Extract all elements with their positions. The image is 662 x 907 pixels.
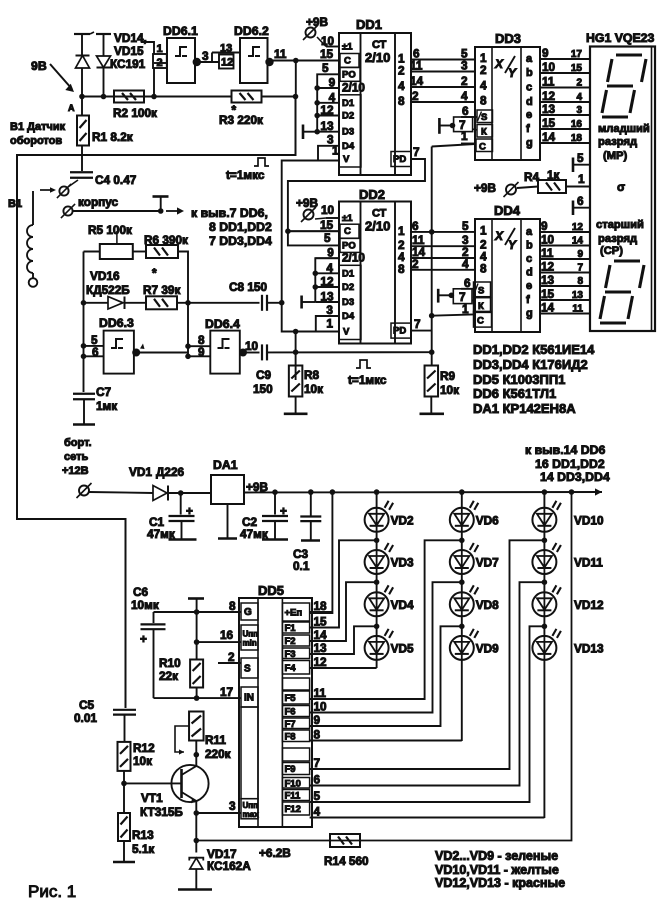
svg-text:3: 3 — [461, 59, 468, 73]
svg-text:Y: Y — [508, 238, 517, 252]
svg-text:σ: σ — [617, 180, 625, 194]
svg-text:15: 15 — [541, 287, 555, 301]
svg-text:R14 560: R14 560 — [324, 854, 369, 868]
svg-text:DD3,DD4 К176ИД2: DD3,DD4 К176ИД2 — [473, 357, 588, 372]
svg-text:5: 5 — [322, 61, 329, 75]
svg-text:f: f — [526, 123, 530, 135]
svg-text:Uпп: Uпп — [243, 801, 259, 810]
svg-text:8: 8 — [480, 94, 487, 108]
svg-text:8: 8 — [577, 276, 583, 287]
svg-text:2/10: 2/10 — [365, 50, 390, 65]
svg-text:F12: F12 — [285, 804, 301, 815]
svg-text:12: 12 — [221, 57, 233, 69]
svg-text:14: 14 — [410, 74, 424, 88]
svg-text:DD6.2: DD6.2 — [234, 24, 269, 38]
svg-text:3: 3 — [576, 105, 582, 116]
svg-text:d: d — [526, 96, 533, 108]
svg-text:10: 10 — [245, 339, 259, 353]
svg-text:S: S — [244, 664, 251, 675]
svg-text:4: 4 — [398, 79, 405, 93]
svg-text:8: 8 — [398, 262, 405, 276]
svg-text:220к: 220к — [205, 747, 231, 761]
svg-text:VD4: VD4 — [391, 598, 414, 612]
svg-text:22к: 22к — [159, 669, 178, 683]
svg-text:С9: С9 — [256, 368, 272, 382]
svg-text:5.1к: 5.1к — [132, 842, 154, 856]
svg-text:2: 2 — [157, 57, 163, 69]
svg-text:6: 6 — [92, 345, 99, 359]
svg-text:2/10: 2/10 — [365, 219, 390, 234]
svg-text:7: 7 — [414, 317, 421, 331]
svg-text:e: e — [526, 109, 532, 121]
svg-text:DD6.1: DD6.1 — [163, 24, 198, 38]
svg-text:16: 16 — [220, 628, 234, 642]
svg-text:47мк: 47мк — [240, 527, 268, 541]
svg-text:10к: 10к — [133, 754, 152, 768]
svg-text:0.1: 0.1 — [293, 559, 310, 573]
svg-text:R5 100к: R5 100к — [88, 223, 132, 237]
svg-text:F2: F2 — [285, 636, 296, 647]
svg-text:13: 13 — [314, 641, 328, 655]
svg-text:КС162А: КС162А — [207, 859, 251, 873]
svg-text:18: 18 — [571, 133, 583, 144]
svg-text:C: C — [344, 56, 351, 67]
svg-text:d: d — [526, 267, 533, 279]
svg-text:R8: R8 — [304, 368, 320, 382]
svg-text:VD8: VD8 — [476, 598, 499, 612]
svg-text:VD3: VD3 — [391, 556, 414, 570]
svg-text:корпус: корпус — [78, 195, 119, 209]
svg-text:5: 5 — [577, 151, 584, 165]
svg-text:e: e — [526, 280, 532, 292]
svg-text:11: 11 — [541, 246, 554, 260]
svg-text:12: 12 — [541, 260, 555, 274]
svg-text:4: 4 — [461, 89, 468, 103]
svg-text:C: C — [344, 226, 351, 237]
svg-text:DD5 К1003ПП1: DD5 К1003ПП1 — [473, 372, 565, 387]
svg-text:9: 9 — [327, 246, 334, 260]
svg-text:разряд: разряд — [598, 233, 637, 245]
svg-text:R4: R4 — [524, 170, 540, 184]
svg-text:R6 390к: R6 390к — [144, 233, 188, 247]
svg-text:14: 14 — [572, 236, 584, 247]
svg-text:С7: С7 — [96, 385, 112, 399]
svg-text:DD1: DD1 — [356, 17, 382, 32]
svg-text:F5: F5 — [285, 693, 297, 704]
svg-text:IN: IN — [244, 693, 254, 704]
svg-text:КС191: КС191 — [110, 57, 146, 71]
svg-text:10: 10 — [542, 60, 556, 74]
svg-text:VD10,VD11 - желтые: VD10,VD11 - желтые — [435, 863, 559, 877]
svg-text:3: 3 — [229, 799, 236, 813]
svg-text:VD10: VD10 — [574, 513, 604, 527]
svg-text:D2: D2 — [342, 111, 354, 122]
svg-text:13: 13 — [572, 290, 584, 301]
svg-text:VD5: VD5 — [391, 641, 414, 655]
svg-text:S: S — [481, 112, 487, 123]
svg-text:младший: младший — [598, 123, 650, 135]
svg-text:8: 8 — [229, 599, 236, 613]
svg-text:10: 10 — [314, 700, 328, 714]
svg-text:VD1: VD1 — [129, 465, 152, 479]
svg-text:старший: старший — [596, 219, 644, 231]
svg-text:f: f — [526, 294, 530, 306]
svg-text:15: 15 — [320, 47, 334, 61]
svg-text:5: 5 — [324, 231, 331, 245]
svg-text:±1: ±1 — [342, 42, 353, 53]
svg-text:c: c — [526, 82, 532, 94]
svg-text:(МР): (МР) — [603, 150, 628, 162]
svg-text:C: C — [477, 316, 484, 327]
svg-text:D2: D2 — [342, 282, 354, 293]
svg-text:14 DD3,DD4: 14 DD3,DD4 — [540, 470, 610, 484]
svg-text:a: a — [526, 53, 533, 65]
svg-text:2: 2 — [461, 74, 468, 88]
svg-text:оборотов: оборотов — [10, 135, 62, 147]
svg-text:+12В: +12В — [62, 465, 89, 477]
svg-text:D1: D1 — [342, 98, 355, 109]
svg-text:К: К — [481, 127, 487, 138]
svg-text:VD12,VD13 - красные: VD12,VD13 - красные — [435, 876, 565, 890]
svg-text:8: 8 — [480, 261, 487, 275]
svg-text:F4: F4 — [285, 663, 297, 674]
svg-text:VT1: VT1 — [141, 791, 163, 805]
svg-text:DD6 К561ТЛ1: DD6 К561ТЛ1 — [473, 386, 556, 401]
svg-text:C: C — [479, 142, 486, 153]
svg-text:12: 12 — [542, 89, 556, 103]
svg-text:10: 10 — [541, 233, 555, 247]
svg-text:4: 4 — [480, 79, 487, 93]
svg-text:С8 150: С8 150 — [229, 280, 267, 294]
svg-text:КД522Б: КД522Б — [86, 283, 130, 297]
svg-text:А: А — [68, 103, 75, 113]
svg-text:VD9: VD9 — [476, 641, 499, 655]
svg-text:G: G — [244, 607, 252, 618]
svg-text:10: 10 — [321, 34, 335, 48]
svg-text:12: 12 — [320, 275, 334, 289]
svg-text:R13: R13 — [132, 828, 154, 842]
svg-text:15: 15 — [571, 63, 583, 74]
svg-text:13: 13 — [220, 43, 232, 55]
svg-text:7: 7 — [314, 756, 321, 770]
svg-text:+9В: +9В — [474, 181, 496, 195]
svg-text:+: + — [186, 504, 193, 518]
svg-text:F10: F10 — [285, 778, 301, 789]
svg-text:12: 12 — [572, 222, 584, 233]
svg-text:18: 18 — [314, 599, 328, 613]
svg-text:2: 2 — [412, 257, 419, 271]
svg-text:1: 1 — [398, 224, 405, 238]
svg-text:6: 6 — [314, 773, 321, 787]
svg-text:b: b — [526, 240, 533, 252]
svg-text:9: 9 — [577, 249, 583, 260]
svg-text:10мк: 10мк — [131, 598, 159, 612]
svg-text:VD11: VD11 — [574, 556, 603, 570]
svg-text:F3: F3 — [285, 649, 296, 660]
svg-text:10к: 10к — [304, 382, 323, 396]
svg-text:14: 14 — [542, 130, 556, 144]
svg-text:16: 16 — [571, 119, 583, 130]
svg-text:R3 220к: R3 220к — [219, 113, 263, 127]
svg-text:14: 14 — [541, 301, 555, 315]
svg-text:150: 150 — [253, 382, 273, 396]
svg-text:+: + — [140, 632, 147, 646]
svg-text:10: 10 — [321, 203, 335, 217]
svg-text:+6.2В: +6.2В — [259, 846, 291, 860]
svg-text:HG1 VQE23: HG1 VQE23 — [586, 31, 655, 45]
svg-text:4: 4 — [576, 92, 582, 103]
svg-text:КТ315Б: КТ315Б — [140, 805, 183, 819]
svg-text:V: V — [343, 327, 350, 338]
svg-text:S: S — [478, 286, 484, 297]
svg-text:11: 11 — [410, 59, 423, 73]
svg-text:8: 8 — [314, 728, 321, 742]
svg-text:9: 9 — [541, 219, 548, 233]
svg-text:+: + — [280, 504, 287, 518]
svg-text:6: 6 — [462, 104, 469, 118]
svg-text:4: 4 — [326, 261, 333, 275]
svg-text:16 DD1,DD2: 16 DD1,DD2 — [535, 457, 605, 471]
svg-text:11: 11 — [542, 75, 555, 89]
svg-text:g: g — [526, 137, 533, 149]
svg-text:1: 1 — [578, 172, 585, 186]
svg-text:4: 4 — [314, 805, 321, 819]
svg-text:1: 1 — [461, 129, 468, 143]
svg-text:F1: F1 — [285, 623, 297, 634]
svg-text:15: 15 — [320, 218, 334, 232]
svg-text:5: 5 — [314, 789, 321, 803]
svg-text:8: 8 — [398, 94, 405, 108]
svg-text:Y: Y — [508, 66, 517, 80]
svg-text:F9: F9 — [285, 764, 296, 775]
svg-text:DD4: DD4 — [494, 203, 521, 218]
svg-text:VD2...VD9 - зеленые: VD2...VD9 - зеленые — [435, 849, 558, 863]
svg-text:PO: PO — [342, 69, 356, 80]
svg-text:9В: 9В — [31, 59, 47, 73]
svg-text:*: * — [152, 266, 157, 280]
svg-text:Д226: Д226 — [156, 465, 185, 479]
svg-text:±1: ±1 — [342, 213, 353, 224]
svg-text:DD3: DD3 — [495, 31, 521, 46]
svg-text:7: 7 — [577, 263, 583, 274]
svg-text:DD6.3: DD6.3 — [99, 316, 134, 330]
svg-text:6: 6 — [577, 194, 584, 208]
svg-text:9: 9 — [314, 713, 321, 727]
svg-text:13: 13 — [320, 290, 334, 304]
svg-text:2/10: 2/10 — [342, 81, 365, 95]
svg-text:3: 3 — [202, 49, 209, 63]
svg-text:1мк: 1мк — [96, 399, 117, 413]
svg-text:17: 17 — [220, 685, 234, 699]
svg-text:1: 1 — [157, 43, 163, 55]
svg-text:Рис. 1: Рис. 1 — [28, 882, 76, 901]
svg-text:2: 2 — [228, 650, 235, 664]
svg-text:+9В: +9В — [246, 480, 268, 494]
svg-text:5: 5 — [462, 219, 469, 233]
svg-text:DD6.4: DD6.4 — [205, 317, 240, 331]
svg-text:Uпп: Uпп — [243, 630, 259, 639]
svg-text:D1: D1 — [342, 268, 355, 279]
svg-text:R12: R12 — [133, 741, 155, 755]
svg-text:12: 12 — [314, 655, 328, 669]
svg-text:7: 7 — [413, 145, 420, 159]
svg-text:10к: 10к — [440, 383, 459, 397]
svg-text:(СР): (СР) — [600, 245, 623, 257]
svg-text:a: a — [526, 226, 533, 238]
svg-text:9: 9 — [329, 76, 336, 90]
svg-text:11: 11 — [314, 686, 327, 700]
svg-text:13: 13 — [541, 273, 555, 287]
svg-text:13: 13 — [320, 119, 334, 133]
svg-text:VD12: VD12 — [574, 598, 604, 612]
svg-text:D4: D4 — [342, 141, 355, 152]
svg-text:13: 13 — [542, 102, 556, 116]
svg-text:R10: R10 — [159, 656, 181, 670]
svg-text:F7: F7 — [285, 719, 296, 730]
svg-text:11: 11 — [572, 304, 583, 315]
svg-text:R11: R11 — [205, 733, 226, 747]
svg-text:PD: PD — [393, 326, 406, 337]
svg-text:7 DD3,DD4: 7 DD3,DD4 — [209, 234, 272, 248]
svg-text:9: 9 — [198, 345, 205, 359]
svg-text:min: min — [243, 639, 257, 648]
svg-text:+Eп: +Eп — [285, 608, 303, 619]
svg-text:VD7: VD7 — [476, 556, 499, 570]
svg-text:g: g — [526, 308, 533, 320]
svg-text:V: V — [343, 154, 350, 165]
svg-text:c: c — [526, 253, 532, 265]
svg-text:R9: R9 — [440, 369, 456, 383]
svg-text:DD5: DD5 — [258, 583, 284, 598]
svg-text:DA1 КР142ЕН8А: DA1 КР142ЕН8А — [473, 401, 576, 416]
svg-text:VD2: VD2 — [391, 513, 414, 527]
svg-text:2: 2 — [480, 63, 487, 77]
svg-text:DD1,DD2 К561ИЕ14: DD1,DD2 К561ИЕ14 — [473, 342, 595, 357]
svg-text:к выв.7 DD6,: к выв.7 DD6, — [191, 206, 268, 220]
svg-text:R2 100к: R2 100к — [113, 106, 157, 120]
svg-text:DD2: DD2 — [359, 187, 385, 202]
svg-text:15: 15 — [314, 615, 328, 629]
svg-text:3: 3 — [326, 303, 333, 317]
svg-text:R7 39к: R7 39к — [143, 283, 180, 297]
svg-text:9: 9 — [542, 46, 549, 60]
svg-text:47мк: 47мк — [147, 527, 175, 541]
svg-text:VD13: VD13 — [574, 641, 604, 655]
svg-text:борт.: борт. — [64, 437, 92, 449]
svg-text:К: К — [478, 301, 484, 312]
svg-text:15: 15 — [542, 116, 556, 130]
svg-text:11: 11 — [274, 47, 287, 61]
svg-text:4: 4 — [462, 257, 469, 271]
svg-text:В1: В1 — [8, 198, 22, 210]
svg-text:8 DD1,DD2: 8 DD1,DD2 — [209, 220, 272, 234]
svg-text:VD15: VD15 — [114, 44, 144, 58]
svg-text:D3: D3 — [342, 297, 354, 308]
svg-text:X: X — [494, 229, 504, 243]
svg-text:0.01: 0.01 — [74, 711, 97, 725]
svg-text:max: max — [243, 810, 260, 819]
svg-text:С5: С5 — [79, 698, 95, 712]
svg-text:F8: F8 — [285, 731, 296, 742]
svg-text:D3: D3 — [342, 127, 354, 138]
svg-text:F11: F11 — [285, 791, 302, 802]
svg-text:F6: F6 — [285, 707, 296, 718]
svg-text:2: 2 — [576, 78, 582, 89]
svg-text:t=1мкс: t=1мкс — [226, 168, 265, 182]
svg-text:разряд: разряд — [598, 136, 637, 148]
svg-text:17: 17 — [571, 49, 583, 60]
svg-text:1: 1 — [480, 223, 487, 237]
svg-text:R1 8.2к: R1 8.2к — [92, 130, 133, 144]
svg-text:к выв.14 DD6: к выв.14 DD6 — [525, 443, 605, 457]
svg-text:2: 2 — [412, 89, 419, 103]
svg-text:b: b — [526, 67, 533, 79]
svg-text:В1 Датчик: В1 Датчик — [10, 121, 66, 133]
svg-text:DA1: DA1 — [213, 458, 238, 472]
svg-text:*: * — [232, 103, 237, 117]
svg-text:X: X — [494, 57, 504, 71]
svg-text:VD16: VD16 — [90, 269, 120, 283]
svg-text:6: 6 — [412, 219, 419, 233]
svg-text:PD: PD — [393, 154, 406, 165]
svg-text:14: 14 — [314, 628, 328, 642]
svg-text:сеть: сеть — [64, 451, 88, 463]
svg-text:С4 0.47: С4 0.47 — [95, 173, 137, 187]
svg-text:D4: D4 — [342, 311, 355, 322]
svg-text:С6: С6 — [133, 585, 149, 599]
svg-text:12: 12 — [320, 103, 334, 117]
svg-text:VD6: VD6 — [476, 513, 499, 527]
svg-text:1к: 1к — [547, 168, 560, 182]
svg-text:2: 2 — [398, 64, 405, 78]
svg-text:1: 1 — [326, 317, 333, 331]
svg-text:t=1мкс: t=1мкс — [348, 373, 387, 387]
